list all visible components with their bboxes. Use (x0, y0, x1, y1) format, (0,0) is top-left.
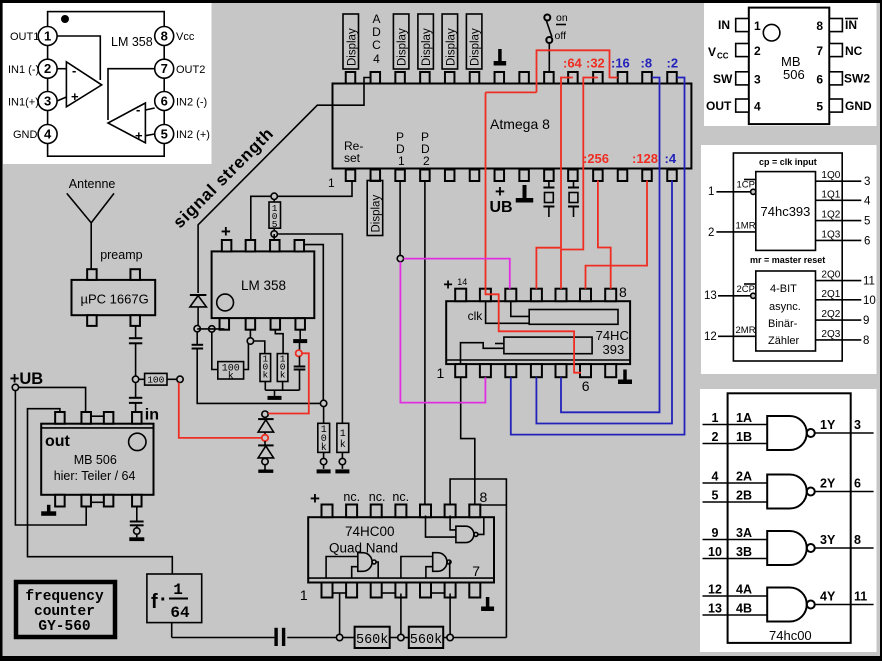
svg-text:14: 14 (457, 277, 467, 287)
svg-text:1: 1 (340, 429, 346, 440)
svg-text:LM 358: LM 358 (111, 35, 153, 49)
svg-text:3: 3 (44, 94, 51, 109)
svg-text:6: 6 (854, 477, 861, 491)
svg-text:Zähler: Zähler (768, 335, 800, 347)
svg-text:74HC: 74HC (596, 328, 629, 343)
svg-text:GND: GND (845, 99, 872, 113)
svg-text:3: 3 (854, 418, 861, 432)
svg-text:in: in (145, 407, 159, 424)
svg-text:IN: IN (845, 18, 857, 32)
svg-text:4: 4 (373, 52, 380, 66)
svg-text:3B: 3B (736, 545, 752, 559)
svg-text:2: 2 (708, 227, 714, 239)
svg-text:2MR: 2MR (736, 325, 756, 336)
svg-text:11: 11 (863, 276, 875, 288)
svg-text:2: 2 (754, 44, 761, 58)
svg-text:13: 13 (704, 290, 717, 302)
svg-text:4: 4 (864, 195, 871, 207)
svg-text:12: 12 (704, 331, 717, 343)
svg-text:1: 1 (173, 581, 183, 599)
svg-text:8: 8 (619, 284, 627, 300)
svg-text:2A: 2A (736, 470, 752, 484)
svg-text::256: :256 (583, 151, 609, 166)
svg-text:Display: Display (445, 28, 457, 66)
svg-text:k: k (321, 442, 327, 454)
svg-text:5: 5 (864, 216, 870, 228)
svg-text:A: A (372, 12, 380, 26)
svg-text:5: 5 (816, 100, 823, 114)
svg-text:6: 6 (864, 235, 870, 247)
svg-text:1A: 1A (736, 411, 752, 425)
svg-text:UB: UB (489, 199, 512, 216)
svg-text:10: 10 (863, 295, 876, 307)
svg-text:100: 100 (147, 375, 164, 386)
svg-text:1Y: 1Y (820, 418, 836, 432)
svg-text:1: 1 (300, 587, 308, 603)
svg-text:nc.: nc. (392, 490, 409, 504)
svg-text:cp = clk input: cp = clk input (759, 157, 817, 167)
svg-text:LM 358: LM 358 (241, 278, 286, 293)
svg-text:4Y: 4Y (820, 590, 836, 604)
svg-text:OUT1: OUT1 (10, 31, 39, 43)
svg-text:NC: NC (845, 44, 863, 58)
svg-text:8: 8 (816, 19, 823, 33)
svg-text:C: C (372, 38, 381, 52)
svg-text:1: 1 (754, 19, 761, 33)
svg-text:nc.: nc. (369, 490, 386, 504)
svg-text:64: 64 (170, 604, 190, 622)
svg-text:3A: 3A (736, 526, 752, 540)
svg-text:4A: 4A (736, 583, 752, 597)
svg-text:4: 4 (44, 127, 52, 142)
svg-text:7: 7 (161, 61, 168, 76)
svg-text:IN1 (-): IN1 (-) (8, 64, 39, 76)
svg-text:4: 4 (754, 100, 761, 114)
svg-text:9: 9 (863, 315, 869, 327)
svg-text:IN2 (+): IN2 (+) (176, 129, 210, 141)
svg-text:preamp: preamp (100, 248, 142, 262)
svg-text:4: 4 (712, 470, 719, 484)
svg-text::32: :32 (586, 56, 605, 71)
svg-text::64: :64 (563, 56, 583, 71)
svg-text:-: - (136, 102, 140, 117)
svg-text:7: 7 (472, 563, 480, 579)
svg-text:OUT: OUT (706, 99, 732, 113)
svg-text:Antenne: Antenne (69, 177, 116, 191)
svg-text:async.: async. (769, 301, 801, 313)
svg-text:Display: Display (470, 28, 482, 66)
svg-text:1CP: 1CP (737, 180, 755, 191)
svg-text:4-BIT: 4-BIT (770, 283, 797, 295)
svg-text:74hc393: 74hc393 (761, 204, 811, 219)
svg-text:IN2 (-): IN2 (-) (176, 97, 207, 109)
svg-text:10: 10 (708, 545, 722, 559)
svg-text:k: k (340, 439, 346, 451)
svg-text::16: :16 (611, 56, 630, 71)
svg-text:1: 1 (398, 154, 405, 168)
svg-text:+: + (221, 222, 231, 241)
svg-text:1Q2: 1Q2 (821, 210, 840, 221)
svg-text:hier: Teiler / 64: hier: Teiler / 64 (54, 469, 136, 483)
svg-text::8: :8 (641, 56, 653, 71)
svg-text:1: 1 (708, 186, 714, 198)
svg-text:Display: Display (346, 28, 358, 66)
svg-text:frequency: frequency (25, 589, 104, 605)
svg-text:3Y: 3Y (820, 533, 836, 547)
svg-text:µPC 1667G: µPC 1667G (81, 292, 149, 307)
svg-text:SW: SW (713, 72, 733, 86)
svg-text:Display: Display (421, 28, 433, 66)
svg-text:k: k (280, 370, 286, 381)
svg-text:V: V (708, 45, 716, 59)
svg-text:6: 6 (816, 72, 823, 86)
svg-text:1Q0: 1Q0 (821, 170, 840, 181)
svg-text:1: 1 (44, 29, 51, 44)
svg-text:2Y: 2Y (820, 477, 836, 491)
svg-text:GND: GND (13, 129, 38, 141)
svg-text:8: 8 (161, 29, 168, 44)
svg-text:·: · (160, 589, 167, 611)
svg-text:Atmega 8: Atmega 8 (490, 116, 550, 132)
svg-text:2: 2 (712, 430, 719, 444)
svg-text:+: + (310, 489, 320, 508)
svg-text:IN: IN (718, 18, 730, 32)
svg-text:1B: 1B (736, 430, 752, 444)
svg-text:2Q1: 2Q1 (821, 289, 840, 300)
svg-text:2B: 2B (736, 489, 752, 503)
svg-text:1: 1 (328, 176, 335, 190)
svg-text:1Q1: 1Q1 (821, 189, 840, 200)
svg-text:nc.: nc. (343, 490, 360, 504)
svg-text::2: :2 (667, 56, 679, 71)
svg-text:74HC00: 74HC00 (345, 524, 395, 539)
svg-text:2CP: 2CP (737, 284, 755, 295)
svg-text:8: 8 (480, 489, 488, 505)
svg-text:Vcc: Vcc (176, 31, 195, 43)
svg-text:6: 6 (582, 378, 590, 394)
svg-text:clk: clk (468, 309, 484, 323)
svg-text:13: 13 (708, 602, 722, 616)
svg-text:off: off (555, 30, 567, 42)
svg-text:2Q0: 2Q0 (821, 270, 840, 281)
svg-text:GY-560: GY-560 (38, 619, 90, 635)
svg-text:8: 8 (863, 335, 869, 347)
svg-text:IN1(+): IN1(+) (8, 97, 39, 109)
svg-text:506: 506 (783, 67, 805, 82)
svg-text:counter: counter (34, 604, 95, 620)
svg-text:OUT2: OUT2 (176, 64, 205, 76)
svg-text:CC: CC (717, 52, 729, 61)
svg-text:on: on (556, 12, 568, 24)
svg-text::128: :128 (632, 151, 658, 166)
svg-text:4B: 4B (736, 602, 752, 616)
svg-text:MB 506: MB 506 (74, 453, 117, 467)
svg-text:2Q2: 2Q2 (821, 309, 840, 320)
svg-text:7: 7 (816, 44, 823, 58)
svg-text:f: f (151, 591, 158, 613)
svg-text:Binär-: Binär- (768, 318, 798, 330)
svg-text:560k: 560k (410, 633, 442, 648)
svg-text:Display: Display (370, 195, 382, 233)
svg-text:11: 11 (854, 590, 867, 604)
svg-text:8: 8 (854, 533, 861, 547)
svg-text:+: + (71, 89, 79, 104)
svg-text:5: 5 (161, 127, 168, 142)
svg-text:1: 1 (437, 365, 445, 381)
svg-text:+: + (443, 277, 452, 294)
svg-text:k: k (262, 370, 268, 381)
svg-text:2: 2 (423, 154, 430, 168)
svg-text:393: 393 (603, 342, 625, 357)
svg-text:out: out (45, 433, 71, 450)
svg-text:k: k (228, 371, 234, 383)
svg-text:74hc00: 74hc00 (769, 628, 812, 643)
svg-text:1Q3: 1Q3 (821, 229, 840, 240)
svg-text:6: 6 (161, 94, 168, 109)
svg-text:-: - (72, 63, 76, 78)
svg-text:SW2: SW2 (844, 72, 870, 86)
svg-text:D: D (372, 25, 381, 39)
svg-text::4: :4 (665, 151, 677, 166)
svg-text:3: 3 (864, 176, 870, 188)
svg-text:2: 2 (44, 61, 51, 76)
svg-text:2Q3: 2Q3 (821, 329, 840, 340)
svg-text:1: 1 (712, 411, 719, 425)
svg-text:mr = master reset: mr = master reset (750, 255, 825, 265)
svg-text:Display: Display (397, 28, 409, 66)
svg-text:set: set (344, 151, 361, 165)
svg-text:3: 3 (754, 72, 761, 86)
svg-text:5: 5 (712, 489, 719, 503)
svg-text:1MR: 1MR (736, 221, 756, 232)
svg-text:9: 9 (712, 526, 719, 540)
svg-text:12: 12 (708, 583, 722, 597)
svg-text:+: + (135, 128, 143, 143)
svg-text:560k: 560k (356, 633, 388, 648)
